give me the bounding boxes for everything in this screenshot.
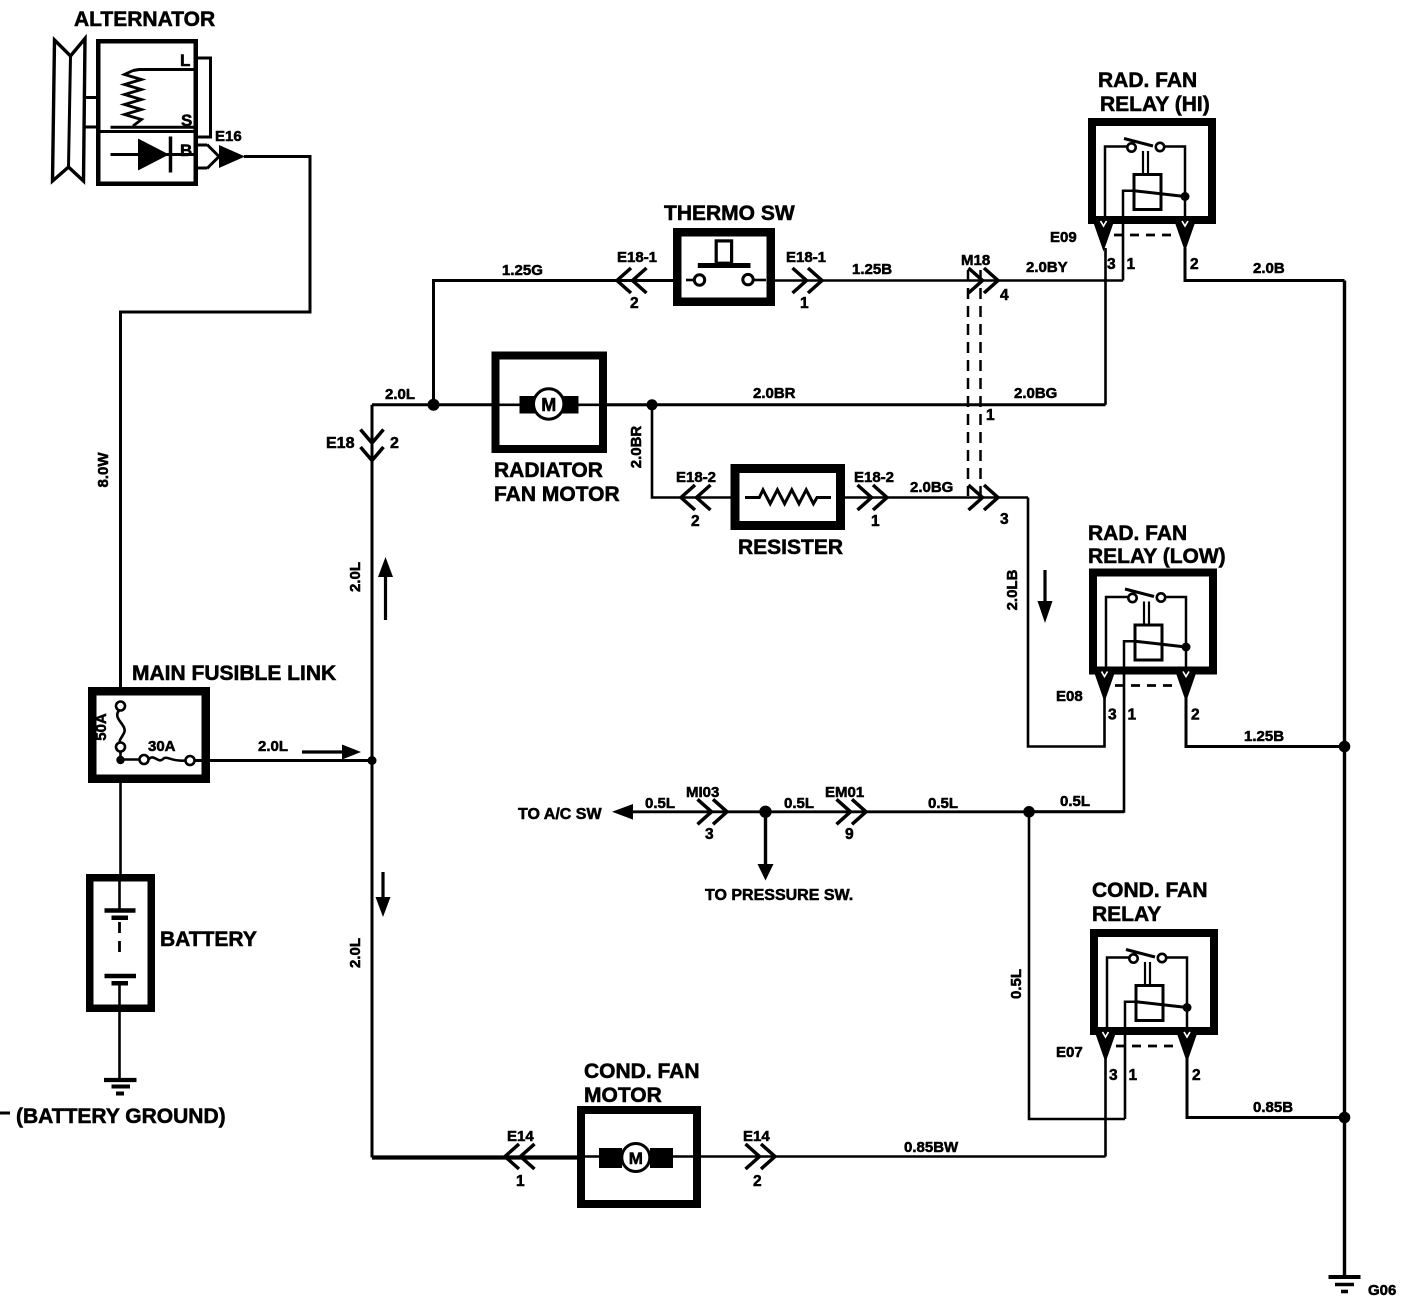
svg-text:L: L	[180, 51, 190, 70]
junction node B	[647, 399, 658, 410]
wire relay E07 pin 1	[1124, 1035, 1127, 1119]
wire relay E07 pin 3	[1104, 1058, 1107, 1157]
svg-text:E07: E07	[1056, 1044, 1083, 1061]
svg-text:1: 1	[516, 1173, 525, 1190]
svg-text:0.5L: 0.5L	[1008, 969, 1025, 999]
svg-text:3: 3	[1108, 707, 1117, 724]
battery box	[90, 878, 152, 1009]
svg-text:M: M	[541, 395, 556, 415]
connector E16	[207, 145, 219, 169]
svg-text:2: 2	[1190, 256, 1199, 273]
wire 0.5L	[630, 810, 1124, 813]
svg-text:G06: G06	[1368, 1282, 1396, 1298]
svg-text:COND. FAN: COND. FAN	[1092, 879, 1208, 902]
wire to pressure sw	[764, 812, 767, 866]
svg-text:30A: 30A	[148, 738, 176, 755]
wire 0.85B relay E07 pin 2	[1187, 1058, 1345, 1118]
thermo switch box	[677, 232, 771, 302]
alternator pulley	[53, 39, 86, 182]
connector M18 chevron pin 3	[969, 485, 983, 510]
wire 1.25B	[775, 279, 1123, 282]
svg-text:E18: E18	[326, 435, 355, 452]
radiator fan motor box	[496, 356, 604, 450]
wire 0.5L branch down	[1029, 812, 1125, 1119]
svg-text:E18-1: E18-1	[786, 249, 826, 266]
svg-text:0.85BW: 0.85BW	[904, 1139, 959, 1156]
diode D1	[138, 139, 169, 171]
svg-text:3: 3	[1107, 256, 1116, 273]
svg-text:4: 4	[1000, 287, 1009, 304]
wire 2.0LB	[1028, 498, 1105, 747]
svg-text:E08: E08	[1056, 688, 1083, 705]
svg-text:RESISTER: RESISTER	[738, 536, 843, 559]
svg-text:1.25B: 1.25B	[852, 261, 892, 278]
svg-text:S: S	[181, 111, 192, 130]
connector M18 dashed lines	[967, 270, 970, 496]
battery ground label	[0, 1112, 10, 1115]
relay E07	[1094, 933, 1214, 1031]
svg-text:0.5L: 0.5L	[1060, 793, 1090, 810]
junction 0.5L node	[1023, 806, 1035, 818]
connector E14 right chevron	[746, 1144, 760, 1169]
wire fusible link to battery	[119, 783, 122, 877]
svg-text:50A: 50A	[93, 713, 110, 741]
radiator fan motor brushes	[520, 396, 537, 414]
battery bottom wire	[118, 984, 121, 1078]
svg-text:E14: E14	[743, 1128, 770, 1145]
svg-text:9: 9	[845, 826, 854, 843]
wire through radiator fan motor	[492, 403, 652, 406]
resistor box	[735, 469, 841, 526]
svg-text:TO A/C SW: TO A/C SW	[518, 806, 602, 823]
svg-text:0.85B: 0.85B	[1253, 1099, 1293, 1116]
terminal bracket L-S	[198, 58, 211, 137]
flow arrow down 2.0L	[381, 872, 384, 899]
wire 2.0L fusible link output	[195, 759, 373, 762]
connector EM01 chevron	[837, 799, 851, 824]
flow arrow right 2.0L	[302, 750, 344, 753]
svg-text:EM01: EM01	[825, 784, 864, 801]
svg-text:M18: M18	[961, 252, 990, 269]
main fusible link box	[92, 691, 206, 779]
svg-text:2: 2	[630, 295, 639, 312]
svg-text:1.25B: 1.25B	[1244, 728, 1284, 745]
wire 2.0BR	[607, 403, 1106, 406]
cond fan motor M2	[622, 1144, 650, 1172]
wire 50A to junction	[119, 752, 122, 763]
svg-text:1: 1	[1129, 1067, 1138, 1084]
svg-text:2.0BG: 2.0BG	[1014, 385, 1057, 402]
fuse 30A	[121, 758, 140, 761]
wire relay LOW pin 1	[1029, 675, 1124, 812]
alternator divider	[98, 130, 196, 133]
svg-text:E18-1: E18-1	[617, 249, 657, 266]
connector E18-2 right chevron	[858, 485, 872, 510]
svg-text:2.0BR: 2.0BR	[753, 385, 796, 402]
svg-text:2.0B: 2.0B	[1253, 260, 1285, 277]
svg-text:2.0BG: 2.0BG	[910, 479, 953, 496]
svg-text:E18-2: E18-2	[854, 469, 894, 486]
connector E18-1 right chevron	[793, 268, 807, 293]
svg-text:COND. FAN: COND. FAN	[584, 1060, 700, 1083]
svg-text:M: M	[629, 1149, 643, 1168]
relay E09	[1092, 122, 1212, 220]
svg-text:0.5L: 0.5L	[928, 795, 958, 812]
wire 1.25G branch	[434, 281, 675, 405]
svg-text:MOTOR: MOTOR	[584, 1084, 662, 1107]
svg-text:BATTERY: BATTERY	[160, 928, 257, 951]
connector E14 left chevron	[505, 1144, 519, 1169]
svg-text:(BATTERY GROUND): (BATTERY GROUND)	[16, 1105, 226, 1128]
svg-text:1: 1	[800, 295, 809, 312]
wire S terminal	[111, 126, 197, 129]
junction 0.85B node	[1339, 1112, 1351, 1124]
svg-text:0.5L: 0.5L	[784, 795, 814, 812]
svg-text:E18-2: E18-2	[676, 469, 716, 486]
wire 2.0L to radiator fan motor	[372, 403, 492, 406]
flow arrow up 2.0L	[384, 575, 387, 620]
svg-text:2: 2	[753, 1173, 762, 1190]
resistor R1	[745, 490, 831, 504]
connector M18 chevron pin 4	[969, 268, 983, 293]
cond fan motor brushes	[599, 1148, 622, 1168]
svg-text:FAN MOTOR: FAN MOTOR	[494, 483, 620, 506]
svg-text:THERMO SW: THERMO SW	[664, 202, 795, 225]
svg-text:1: 1	[1128, 707, 1137, 724]
svg-text:3: 3	[1109, 1067, 1118, 1084]
wire 2.0BG resistor output	[845, 496, 1028, 499]
svg-text:E14: E14	[507, 1128, 534, 1145]
pulley shaft	[85, 96, 98, 99]
svg-text:2: 2	[390, 435, 399, 452]
ground G06	[1329, 1275, 1361, 1279]
svg-text:1: 1	[871, 513, 880, 530]
wire diode B	[111, 153, 197, 156]
svg-text:RELAY: RELAY	[1092, 903, 1161, 926]
radiator fan motor M1	[534, 389, 564, 419]
alternator box	[98, 41, 196, 184]
svg-text:2.0L: 2.0L	[347, 938, 364, 968]
thermo switch button	[698, 263, 751, 268]
svg-text:2.0BY: 2.0BY	[1026, 259, 1068, 276]
svg-text:RAD. FAN: RAD. FAN	[1098, 69, 1197, 92]
battery ground symbol	[104, 1078, 137, 1082]
svg-text:3: 3	[705, 826, 714, 843]
svg-text:1: 1	[1127, 256, 1136, 273]
svg-text:1: 1	[986, 407, 995, 424]
wire coil to L terminal	[133, 70, 196, 71]
svg-text:2.0LB: 2.0LB	[1004, 569, 1021, 610]
wire 8.0W	[121, 157, 311, 690]
svg-text:0.5L: 0.5L	[645, 795, 675, 812]
svg-text:MAIN FUSIBLE LINK: MAIN FUSIBLE LINK	[132, 662, 336, 685]
svg-text:E09: E09	[1050, 229, 1077, 246]
connector E18-1 left chevron	[617, 268, 631, 293]
connector E18-2 left chevron	[681, 485, 695, 510]
svg-text:2.0L: 2.0L	[258, 738, 288, 755]
junction 1.25B node	[1339, 741, 1351, 753]
wire 1.25B relay LOW pin 2	[1186, 698, 1345, 747]
svg-text:1.25G: 1.25G	[502, 262, 543, 279]
svg-text:2: 2	[691, 513, 700, 530]
svg-text:2.0L: 2.0L	[347, 562, 364, 592]
terminal tab B	[198, 144, 207, 147]
flow arrow down 2.0LB	[1043, 570, 1046, 603]
wire 0.85BW	[577, 1155, 1106, 1158]
wire 2.0BG to relay HI pin 3	[1104, 248, 1107, 405]
junction node A	[428, 399, 440, 411]
svg-text:B: B	[180, 141, 192, 160]
battery top wire	[118, 877, 121, 909]
thermo switch contacts	[686, 279, 694, 282]
junction 2.0L bus	[368, 756, 377, 765]
junction pressure sw node	[759, 806, 771, 818]
svg-text:RELAY (HI): RELAY (HI)	[1100, 93, 1210, 116]
alternator coil	[125, 71, 142, 127]
wire 2.0B bus	[1343, 281, 1346, 1278]
relay E08	[1093, 573, 1213, 671]
connector MI03 chevron	[698, 799, 712, 824]
svg-text:3: 3	[1000, 511, 1009, 528]
svg-text:8.0W: 8.0W	[95, 452, 112, 488]
wire 2.0B relay HI pin 2	[1185, 248, 1345, 281]
to A/C SW arrow	[612, 804, 633, 820]
svg-text:E16: E16	[215, 128, 242, 145]
cond fan motor box	[581, 1110, 697, 1204]
svg-text:2.0BR: 2.0BR	[628, 426, 645, 469]
battery plates	[105, 908, 136, 913]
svg-text:RAD. FAN: RAD. FAN	[1088, 522, 1187, 545]
wire relay HI pin 1	[1122, 224, 1125, 281]
wire 2.0L to cond fan motor	[372, 1155, 577, 1159]
junction fusible link	[116, 756, 124, 764]
svg-text:TO PRESSURE SW.: TO PRESSURE SW.	[705, 887, 853, 904]
svg-text:2.0L: 2.0L	[385, 386, 415, 403]
connector E18 chevron	[361, 430, 384, 444]
svg-text:ALTERNATOR: ALTERNATOR	[74, 8, 215, 31]
fuse 50A	[116, 702, 125, 711]
svg-text:2: 2	[1191, 707, 1200, 724]
svg-text:RELAY (LOW): RELAY (LOW)	[1088, 545, 1226, 568]
svg-text:2: 2	[1192, 1067, 1201, 1084]
wire 2.0L bus vertical	[371, 405, 374, 1158]
svg-text:RADIATOR: RADIATOR	[494, 459, 603, 482]
wire 2.0BR branch down	[652, 405, 731, 498]
